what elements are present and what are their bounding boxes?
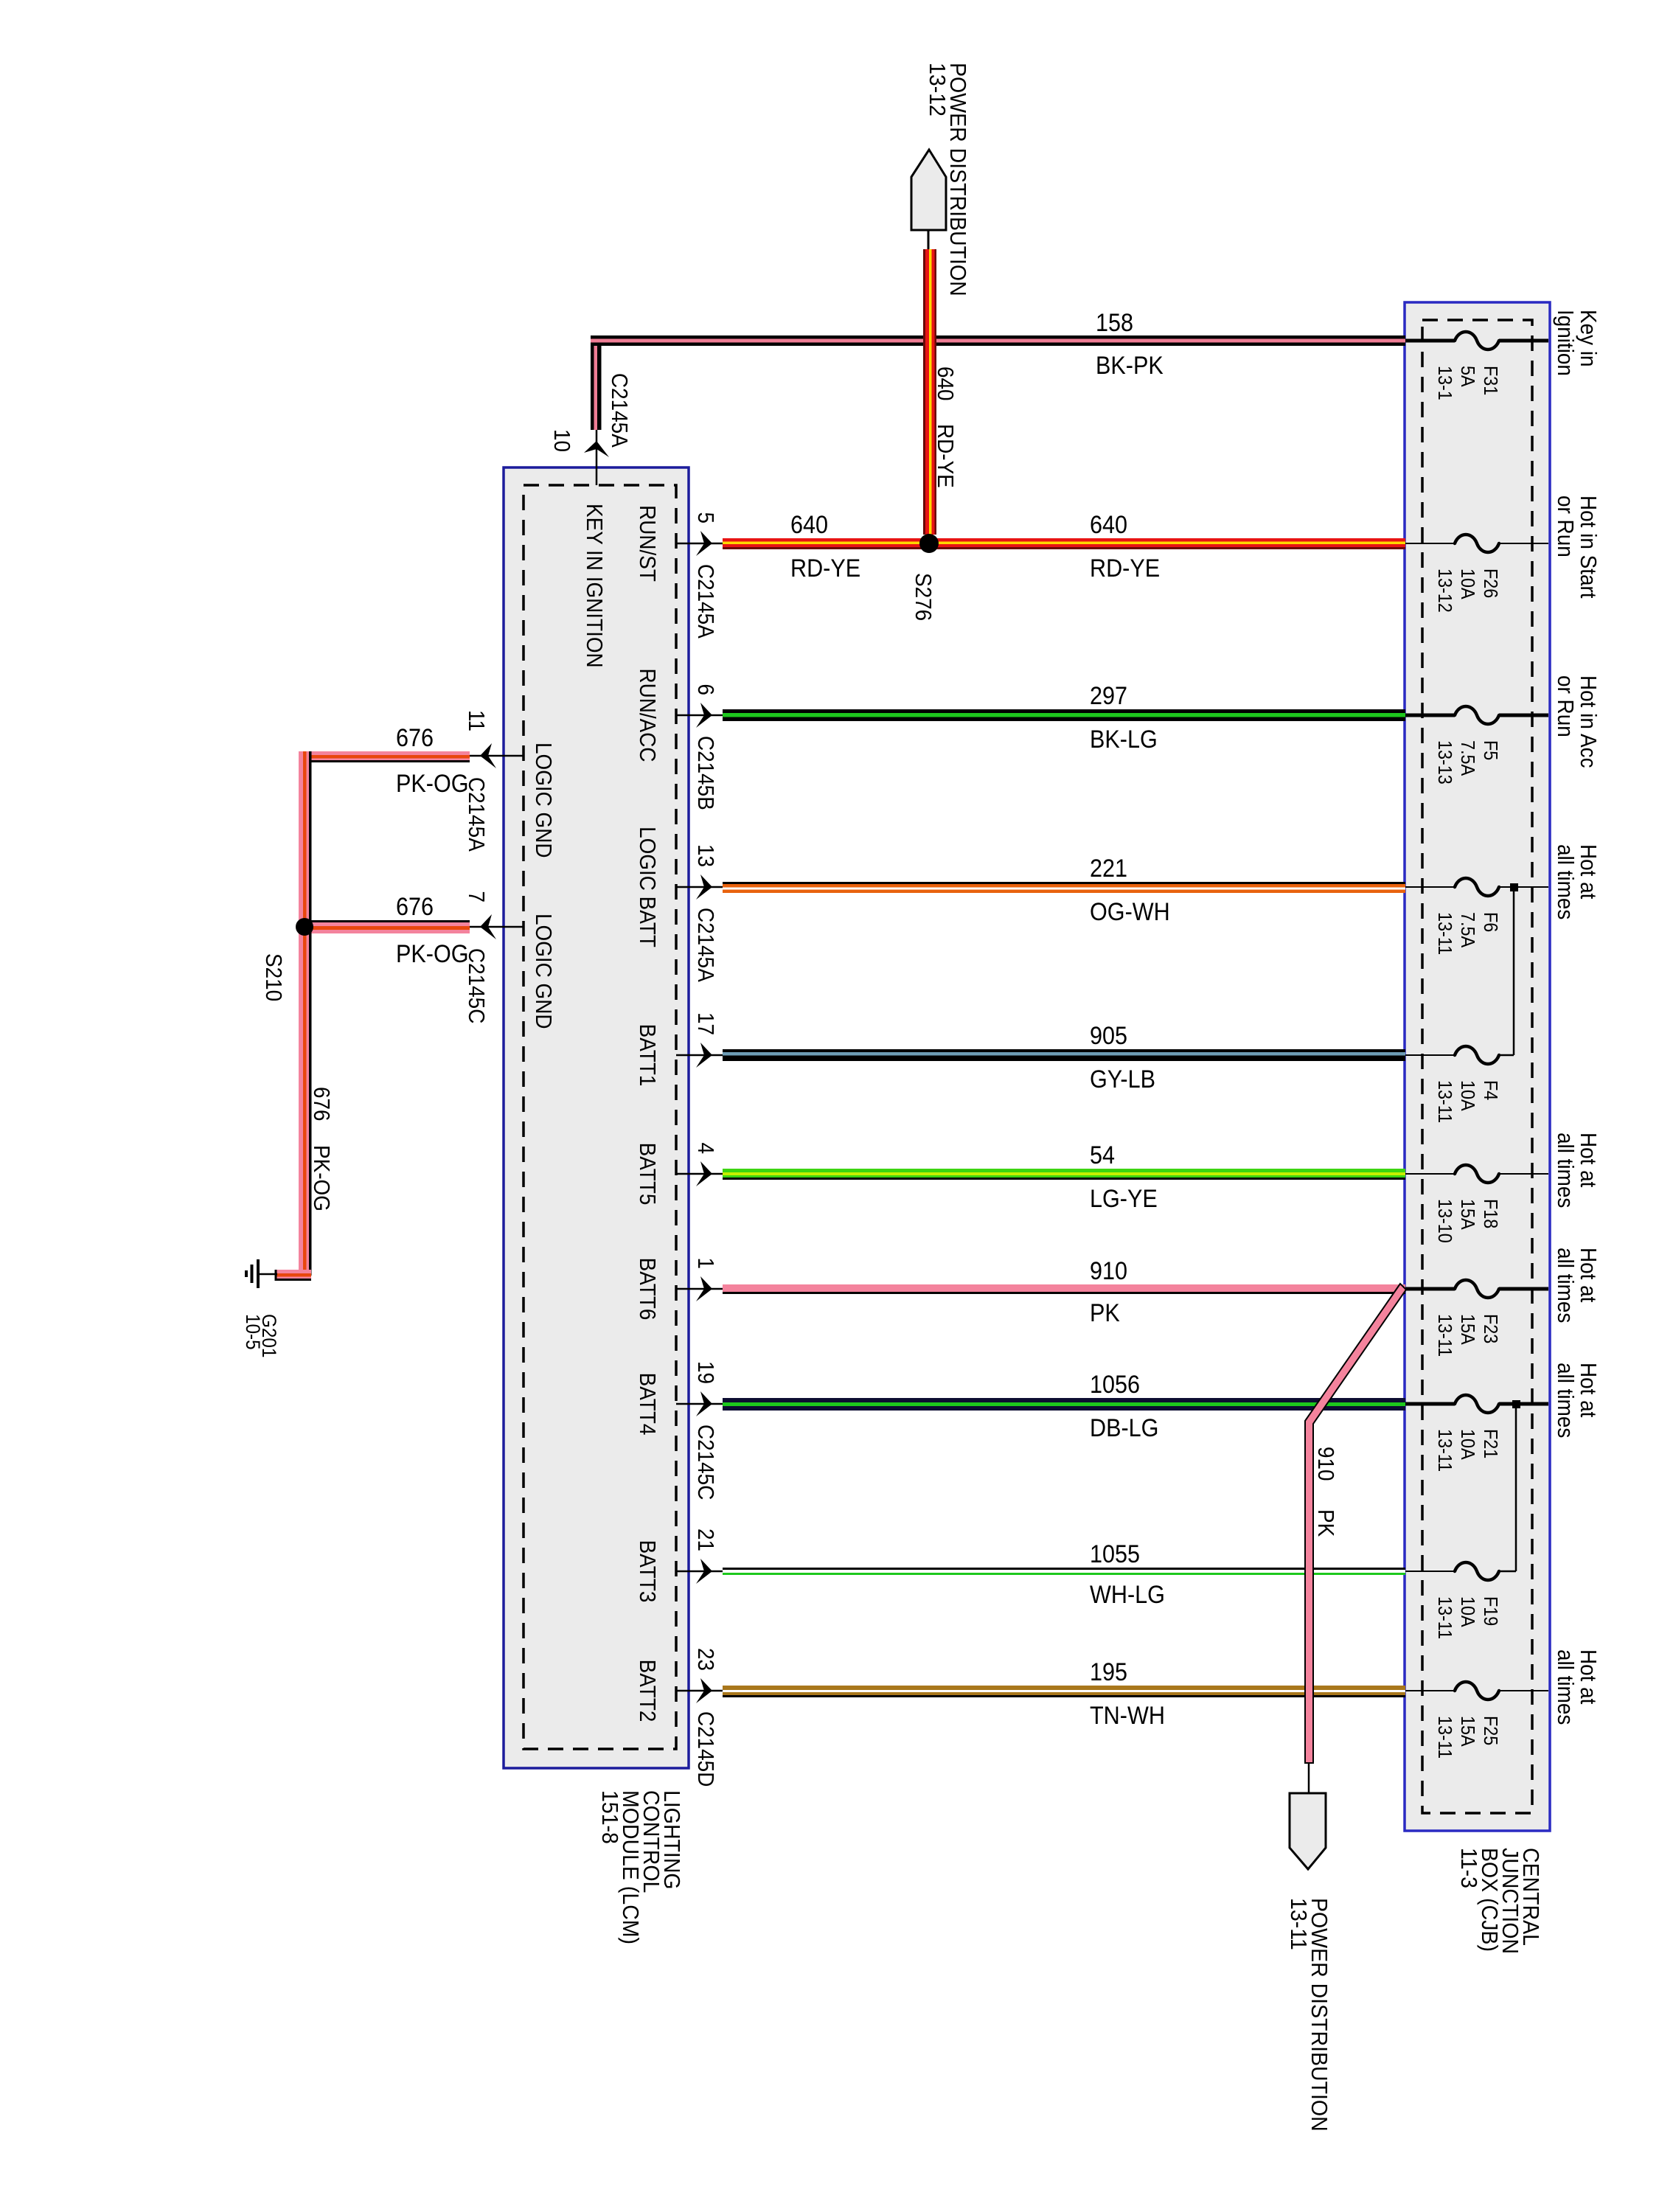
svg-text:151-8: 151-8	[597, 1790, 622, 1844]
svg-text:C2145A: C2145A	[607, 373, 633, 448]
pin 13 arrow	[676, 886, 723, 888]
pin 11 arrow	[470, 755, 524, 757]
svg-text:4: 4	[693, 1142, 719, 1154]
svg-text:WH-LG: WH-LG	[1090, 1581, 1165, 1609]
svg-text:676: 676	[309, 1087, 335, 1121]
svg-text:all times: all times	[1553, 1363, 1579, 1438]
svg-text:5A: 5A	[1457, 366, 1478, 387]
svg-text:BATT5: BATT5	[635, 1143, 661, 1206]
pin 5 arrow	[676, 543, 723, 545]
svg-text:Hot at: Hot at	[1576, 1248, 1601, 1302]
svg-text:13: 13	[693, 844, 719, 867]
wire: stub from arrow to RD-YE wire	[928, 230, 930, 251]
svg-text:or Run: or Run	[1553, 675, 1579, 737]
svg-text:297: 297	[1090, 682, 1127, 710]
wire 221 OG-WH (pin 13 to F6)	[723, 882, 1405, 884]
svg-text:RD-YE: RD-YE	[1090, 554, 1160, 582]
svg-text:Hot in Start: Hot in Start	[1576, 495, 1601, 599]
svg-text:PK: PK	[1313, 1509, 1339, 1537]
svg-text:23: 23	[693, 1648, 719, 1671]
svg-text:RD-YE: RD-YE	[790, 554, 860, 582]
svg-text:F26: F26	[1480, 568, 1500, 598]
power distribution 13-11 arrow symbol	[1290, 1793, 1326, 1869]
svg-text:F19: F19	[1480, 1596, 1500, 1626]
central junction box CJB outline	[1405, 302, 1550, 1831]
fuse F5 7.5A	[1405, 714, 1455, 717]
svg-text:all times: all times	[1553, 844, 1579, 919]
svg-text:BATT2: BATT2	[635, 1660, 661, 1722]
wire 905 GY-LB (pin 17 to F4)	[723, 1049, 1405, 1052]
svg-text:Hot at: Hot at	[1576, 844, 1601, 899]
svg-text:17: 17	[693, 1012, 719, 1035]
wire 158 BK-PK: corner vertical segment to pin 10	[591, 335, 594, 430]
wire 158 BK-PK horizontal	[591, 335, 1405, 339]
fuse F4 10A	[1405, 1054, 1455, 1056]
pin 21 arrow	[676, 1571, 723, 1573]
svg-text:15A: 15A	[1457, 1716, 1478, 1747]
svg-text:all times: all times	[1553, 1649, 1579, 1725]
junction F6 bus	[1510, 883, 1518, 891]
svg-text:640: 640	[933, 366, 959, 401]
svg-text:F6: F6	[1480, 912, 1500, 932]
svg-text:11: 11	[464, 710, 490, 731]
svg-text:13-11: 13-11	[1286, 1898, 1311, 1950]
svg-text:BATT4: BATT4	[635, 1373, 661, 1436]
svg-text:BK-PK: BK-PK	[1096, 352, 1164, 380]
CJB inner dashed border	[1422, 320, 1532, 1813]
pin 10 arrow into LCM	[596, 430, 598, 485]
svg-text:LOGIC GND: LOGIC GND	[531, 914, 557, 1029]
svg-text:Hot in Acc: Hot in Acc	[1576, 675, 1601, 768]
power distribution 13-12 arrow symbol	[911, 150, 946, 230]
svg-text:PK-OG: PK-OG	[396, 940, 469, 968]
svg-text:15A: 15A	[1457, 1199, 1478, 1230]
svg-text:or Run: or Run	[1553, 495, 1579, 557]
svg-text:TN-WH: TN-WH	[1090, 1702, 1165, 1730]
svg-text:Key in: Key in	[1576, 310, 1601, 367]
svg-text:BK-LG: BK-LG	[1090, 726, 1158, 754]
svg-text:F21: F21	[1480, 1429, 1500, 1458]
svg-text:C2145C: C2145C	[693, 1425, 719, 1500]
svg-text:10A: 10A	[1457, 1429, 1478, 1460]
svg-text:10-5: 10-5	[242, 1314, 263, 1350]
svg-text:6: 6	[693, 684, 719, 695]
svg-text:RD-YE: RD-YE	[933, 424, 959, 488]
svg-text:BATT1: BATT1	[635, 1024, 661, 1087]
svg-text:PK: PK	[1090, 1299, 1120, 1327]
svg-text:13-11: 13-11	[1434, 912, 1455, 955]
fuse F23 15A	[1405, 1287, 1455, 1291]
fuse F6 7.5A	[1405, 886, 1455, 888]
svg-text:PK-OG: PK-OG	[396, 770, 469, 798]
junction F21 bus	[1512, 1400, 1520, 1408]
fuse F26 10A	[1405, 543, 1455, 544]
svg-text:F5: F5	[1480, 740, 1500, 760]
svg-text:11-3: 11-3	[1456, 1848, 1481, 1888]
svg-text:C2145A: C2145A	[693, 564, 719, 639]
svg-text:all times: all times	[1553, 1133, 1579, 1208]
pin 7 arrow	[470, 926, 524, 928]
LCM inner dashed border	[524, 485, 676, 1749]
wire 676 PK-OG pin 11 horizontal	[299, 751, 470, 755]
splice S210	[296, 918, 313, 936]
svg-text:5: 5	[693, 512, 719, 524]
svg-text:F25: F25	[1480, 1716, 1500, 1745]
wire 640 RD-YE vertical from power distribution to S276	[923, 249, 925, 535]
svg-text:10A: 10A	[1457, 1596, 1478, 1627]
svg-text:LG-YE: LG-YE	[1090, 1185, 1158, 1213]
svg-text:F4: F4	[1480, 1080, 1500, 1101]
pin 19 arrow	[676, 1403, 723, 1405]
svg-text:13-10: 13-10	[1434, 1199, 1455, 1243]
svg-text:S210: S210	[261, 953, 287, 1001]
svg-text:10: 10	[549, 429, 575, 452]
svg-text:all times: all times	[1553, 1248, 1579, 1323]
ground connection line	[259, 1273, 277, 1276]
svg-text:15A: 15A	[1457, 1314, 1478, 1345]
svg-text:13-11: 13-11	[1434, 1080, 1455, 1123]
svg-text:905: 905	[1090, 1022, 1127, 1050]
svg-text:Hot at: Hot at	[1576, 1133, 1601, 1187]
svg-text:1055: 1055	[1090, 1540, 1140, 1568]
svg-text:OG-WH: OG-WH	[1090, 898, 1170, 926]
svg-text:1: 1	[693, 1257, 719, 1269]
svg-text:910: 910	[1090, 1257, 1127, 1285]
pin 17 arrow	[676, 1054, 723, 1057]
svg-text:S276: S276	[911, 573, 936, 621]
svg-text:PK-OG: PK-OG	[309, 1145, 335, 1211]
svg-text:7.5A: 7.5A	[1457, 912, 1478, 948]
svg-text:BATT3: BATT3	[635, 1540, 661, 1603]
wire 1055 WH-LG (pin 21 to F19)	[723, 1568, 1405, 1570]
svg-text:13-12: 13-12	[925, 63, 950, 116]
wire: vertical bus F21 to F19	[1515, 1404, 1517, 1571]
wire 297 BK-LG (pin 6 to F5)	[723, 709, 1405, 713]
pin 1 arrow	[676, 1288, 723, 1290]
wire 676 PK-OG pin 7 horizontal	[299, 920, 470, 922]
svg-text:F23: F23	[1480, 1314, 1500, 1343]
svg-text:13-11: 13-11	[1434, 1314, 1455, 1357]
svg-text:C2145A: C2145A	[693, 908, 719, 982]
svg-text:10A: 10A	[1457, 1080, 1478, 1111]
svg-text:DB-LG: DB-LG	[1090, 1414, 1158, 1442]
svg-text:10A: 10A	[1457, 568, 1478, 599]
svg-text:13-11: 13-11	[1434, 1716, 1455, 1759]
pin 6 arrow	[676, 714, 723, 717]
svg-text:C2145D: C2145D	[693, 1711, 719, 1787]
fuse F18 15A	[1405, 1173, 1455, 1175]
svg-text:Ignition: Ignition	[1553, 310, 1579, 376]
wire 54 LG-YE (pin 4 to F18)	[723, 1169, 1405, 1172]
svg-text:640: 640	[790, 511, 828, 539]
svg-text:KEY IN IGNITION: KEY IN IGNITION	[582, 504, 608, 668]
svg-text:GY-LB: GY-LB	[1090, 1065, 1155, 1093]
svg-text:Hot at: Hot at	[1576, 1649, 1601, 1704]
svg-text:195: 195	[1090, 1658, 1127, 1686]
ground symbol G201	[257, 1259, 260, 1288]
svg-text:21: 21	[693, 1528, 719, 1551]
svg-text:221: 221	[1090, 855, 1127, 883]
svg-text:13-12: 13-12	[1434, 568, 1455, 613]
wire 640 RD-YE horizontal (pin 5 to F26)	[723, 538, 1405, 542]
svg-text:640: 640	[1090, 511, 1127, 539]
pin 4 arrow	[676, 1173, 723, 1175]
svg-text:13-13: 13-13	[1434, 740, 1455, 785]
svg-text:13-11: 13-11	[1434, 1596, 1455, 1639]
svg-text:13-1: 13-1	[1434, 366, 1455, 400]
wire: vertical bus F6 to F4	[1513, 887, 1515, 1055]
wire: stub to bottom arrow	[1308, 1763, 1310, 1793]
svg-text:F18: F18	[1480, 1199, 1500, 1228]
svg-text:C2145B: C2145B	[693, 736, 719, 810]
svg-text:RUN/ACC: RUN/ACC	[635, 668, 661, 762]
svg-text:676: 676	[396, 724, 434, 752]
svg-text:7: 7	[464, 891, 490, 902]
svg-text:LOGIC BATT: LOGIC BATT	[635, 827, 661, 947]
svg-text:RUN/ST: RUN/ST	[635, 505, 661, 582]
wire 676 bottom stub to ground	[276, 1270, 311, 1273]
svg-text:19: 19	[693, 1361, 719, 1384]
wire 910 PK diagonal branch	[1305, 1284, 1406, 1763]
fuse F19 10A	[1405, 1571, 1455, 1572]
svg-text:158: 158	[1096, 309, 1133, 337]
fuse F31 5A	[1405, 339, 1455, 343]
svg-text:13-11: 13-11	[1434, 1429, 1455, 1472]
wire 195 TN-WH (pin 23 to F25)	[723, 1686, 1405, 1690]
fuse F21 10A	[1405, 1402, 1455, 1406]
svg-text:LOGIC GND: LOGIC GND	[531, 742, 557, 858]
svg-text:1056: 1056	[1090, 1371, 1140, 1399]
pin 23 arrow	[676, 1690, 723, 1692]
svg-text:Hot at: Hot at	[1576, 1363, 1601, 1417]
wire 910 PK (pin 1 to F23)	[723, 1284, 1405, 1292]
wire 676 PK-OG vertical to ground	[299, 751, 303, 1276]
svg-text:910: 910	[1313, 1447, 1339, 1481]
fuse F25 15A	[1405, 1690, 1455, 1691]
splice S276	[919, 534, 939, 553]
svg-text:676: 676	[396, 893, 434, 921]
svg-text:54: 54	[1090, 1141, 1115, 1169]
lighting control module LCM outline	[504, 467, 689, 1768]
svg-text:BATT6: BATT6	[635, 1258, 661, 1321]
svg-text:F31: F31	[1480, 366, 1500, 395]
svg-text:7.5A: 7.5A	[1457, 740, 1478, 776]
wire 1056 DB-LG (pin 19 to F21)	[723, 1398, 1405, 1402]
